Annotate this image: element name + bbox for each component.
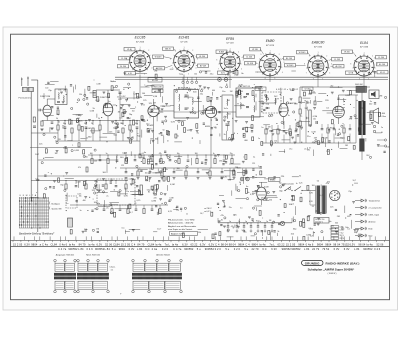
svg-text:6,3V: 6,3V (239, 85, 244, 87)
value label (247, 192, 249, 194)
svg-text:63 22: 63 22 (278, 242, 285, 246)
wire segment (356, 99, 358, 101)
wire segment (251, 235, 255, 237)
terminal strip rail bottom (11, 245, 390, 247)
value label (309, 228, 313, 230)
capacitor C246 (251, 219, 253, 220)
value label (295, 124, 298, 126)
svg-text:la 4a: la 4a (259, 242, 266, 246)
junction dot (309, 147, 310, 148)
capacitor value label (245, 221, 247, 223)
svg-text:C 4 7a: C 4 7a (58, 247, 67, 251)
wire segment (356, 231, 358, 233)
terminal circle (184, 207, 186, 209)
ground (125, 100, 128, 102)
value label (307, 136, 310, 138)
resistor R132 (236, 93, 238, 97)
value label (347, 216, 350, 218)
IF coil L11 (240, 103, 243, 110)
wire segment (46, 115, 54, 117)
value label (309, 201, 313, 203)
wire segment (303, 97, 311, 99)
svg-text:8n: 8n (342, 227, 344, 229)
wire segment (157, 209, 159, 215)
wire segment (335, 129, 337, 135)
capacitor C21 (169, 160, 172, 161)
socket pin label tag 12 (250, 48, 264, 55)
junction dot (262, 237, 263, 238)
junction dot (116, 105, 117, 106)
svg-text:63 22: 63 22 (190, 242, 197, 246)
wire stub (196, 155, 198, 159)
junction dot (115, 167, 116, 168)
wire segment (73, 114, 83, 116)
wire stub (99, 155, 101, 159)
resistor R261 (268, 230, 270, 234)
wire stub (283, 121, 285, 129)
svg-text:3 2 0: 3 2 0 (162, 247, 169, 251)
capacitor C64 (151, 209, 154, 210)
ground (319, 213, 322, 215)
resistor R109 (137, 93, 139, 98)
value label (36, 192, 38, 194)
resistor R32 (161, 171, 163, 176)
detector diode D1 (265, 107, 270, 110)
value label (137, 200, 142, 202)
wire component stub (122, 121, 124, 126)
wire stub (64, 128, 66, 141)
junction dot (233, 227, 234, 228)
wire segment (130, 151, 132, 156)
wire segment (147, 160, 153, 162)
resistor R80 (83, 150, 85, 154)
capacitor C200 (155, 190, 157, 191)
wire stub (227, 229, 229, 232)
ground (317, 218, 320, 220)
junction dot (43, 158, 44, 159)
svg-text:3: 3 (377, 63, 378, 65)
svg-text:220: 220 (180, 74, 183, 76)
resistor R1 (57, 125, 59, 130)
svg-text:3: 3 (243, 59, 244, 61)
capacitor C69 (250, 226, 252, 227)
value label (222, 91, 225, 93)
svg-text:6 3V: 6 3V (334, 247, 340, 251)
svg-text:AM-Zwischenkr. : 460 kHz: AM-Zwischenkr. : 460 kHz (168, 222, 193, 225)
value label (45, 88, 48, 90)
ground (132, 230, 135, 232)
ground (309, 125, 312, 127)
ground (257, 230, 260, 233)
value label (107, 103, 111, 105)
junction dot (129, 120, 130, 121)
junction dot (237, 222, 238, 223)
socket pin label tag 16 (329, 58, 342, 62)
svg-text:2: 2 (326, 55, 327, 57)
terminal circle (94, 149, 96, 151)
capacitor C148 (210, 109, 212, 110)
wire IF1 internal (174, 101, 199, 112)
svg-text:10,7: 10,7 (146, 124, 150, 126)
svg-text:la 4a: la 4a (155, 242, 162, 246)
wire segment (236, 198, 246, 200)
wire segment (165, 176, 167, 180)
capacitor C33 (173, 172, 176, 173)
resistor R1 (41, 121, 43, 126)
svg-text:125: 125 (252, 163, 255, 165)
svg-text:0 4a 6: 0 4a 6 (59, 242, 67, 246)
value label (307, 102, 310, 104)
ground (313, 108, 316, 110)
value label (129, 212, 133, 214)
wire segment (234, 225, 236, 228)
wire stub (137, 168, 139, 171)
value label (224, 134, 226, 136)
wire segment (340, 98, 346, 100)
wire IF chain 2 (199, 110, 206, 112)
wire component stub (115, 121, 117, 126)
junction dot (66, 94, 67, 95)
schematic border frame (11, 34, 390, 300)
terminal strip tick marks (13, 240, 384, 242)
junction dot (78, 120, 79, 121)
ground (282, 184, 285, 186)
resistor R153 (239, 90, 241, 94)
svg-text:5n: 5n (259, 221, 261, 223)
capacitor C242 (261, 231, 263, 232)
terminal circle (224, 116, 226, 118)
wire segment (109, 202, 118, 204)
resistor R12 (91, 159, 93, 164)
wire ladder ends (218, 218, 292, 223)
resistor R7 (99, 125, 101, 130)
socket pin label tag 24 (152, 89, 163, 93)
wire stub (277, 125, 279, 129)
value label (134, 203, 136, 205)
value label (84, 157, 88, 159)
value label (347, 229, 350, 231)
wire segment (312, 231, 314, 236)
value label (181, 211, 183, 213)
wire segment (351, 220, 353, 229)
value label (269, 199, 273, 201)
dial lamp LP2 (224, 78, 228, 82)
value label (117, 96, 120, 98)
socket pin label tag 21 (375, 71, 388, 75)
wire segment (184, 96, 192, 98)
value label (237, 133, 239, 135)
wire stub (125, 155, 127, 159)
wire stub (227, 223, 229, 226)
wire stub (214, 155, 216, 159)
terminal circle (64, 189, 66, 191)
value label (79, 94, 82, 96)
value label (289, 149, 292, 151)
value label (342, 227, 344, 229)
ground (130, 184, 133, 186)
value label (241, 105, 244, 107)
capacitor C99 (127, 117, 129, 118)
wire segment (317, 100, 322, 102)
svg-text:6,3V: 6,3V (121, 96, 126, 98)
value label (76, 114, 81, 116)
junction dot (205, 154, 206, 155)
value label (113, 128, 117, 130)
terminal circle (354, 115, 356, 117)
svg-text:UKW - Dipol: UKW - Dipol (369, 215, 380, 217)
wire segment (270, 232, 272, 240)
value label (129, 114, 133, 116)
terminal circle (265, 94, 267, 96)
value label (36, 180, 40, 182)
value label (310, 228, 314, 230)
value label (122, 153, 127, 155)
value label (242, 230, 246, 232)
capacitor C56 (115, 186, 118, 187)
junction dot (284, 212, 285, 213)
svg-text:5: 5 (234, 74, 235, 76)
value label (262, 217, 264, 219)
wire stub (349, 134, 351, 144)
value label (359, 124, 363, 126)
wire segment (313, 142, 324, 144)
resistor R40 (265, 129, 267, 134)
wire stub (75, 181, 77, 185)
capacitor C181 (328, 141, 330, 142)
value label (153, 103, 156, 105)
capacitor C83 (47, 82, 49, 83)
value label (80, 210, 82, 212)
wire segment (96, 114, 98, 118)
grid capacitor C2 (39, 109, 43, 112)
value label (239, 182, 241, 184)
svg-text:0,5M: 0,5M (74, 150, 79, 152)
capacitor value label (252, 221, 254, 223)
svg-text:0,5M: 0,5M (169, 198, 173, 200)
capacitor C79 (155, 164, 157, 165)
junction dot (313, 133, 314, 134)
tube V5 EABC80 (279, 96, 297, 121)
ground (359, 126, 362, 128)
svg-text:62-205: 62-205 (152, 80, 158, 82)
svg-text:0 4a 6: 0 4a 6 (306, 242, 314, 246)
value label (148, 132, 151, 134)
resistor R189 (318, 141, 320, 145)
svg-text:1M: 1M (96, 229, 99, 231)
svg-text:6,3V C 62 a 72 C4 62: 6,3V C 62 a 72 C4 62 (276, 89, 298, 91)
capacitor C37 (221, 172, 224, 173)
bass coil dashed box (66, 196, 77, 208)
value label (170, 69, 174, 71)
svg-text:CL 246: CL 246 (121, 58, 127, 60)
svg-text:2a: 2a (106, 196, 108, 198)
wire segment (237, 172, 247, 174)
svg-text:6,3V: 6,3V (182, 242, 188, 246)
output transformer secondary (359, 139, 364, 152)
wire stub (333, 124, 335, 128)
resistor R243 (307, 216, 309, 220)
junction dot (335, 228, 336, 229)
svg-text:8: 8 (216, 59, 217, 61)
resistor R94 (108, 93, 110, 97)
under-bus text row 2 (276, 89, 298, 91)
wire segment (202, 110, 213, 112)
svg-text:9804: 9804 (119, 247, 126, 251)
junction dot (265, 222, 266, 223)
value label (258, 166, 259, 168)
wire component stub (85, 121, 87, 126)
wire detector link (260, 98, 276, 103)
svg-text:25u: 25u (289, 149, 292, 151)
svg-text:8: 8 (170, 58, 171, 60)
wire component stub (136, 121, 138, 126)
svg-text:98 04: 98 04 (229, 242, 236, 246)
terminal circle (257, 199, 259, 201)
capacitor C108 (120, 108, 122, 109)
wire stub (264, 223, 266, 226)
junction dot (85, 120, 86, 121)
svg-text:100: 100 (90, 153, 93, 155)
resistor R102 (147, 128, 149, 132)
svg-text:CL 209: CL 209 (334, 59, 340, 61)
ground (151, 130, 154, 132)
wire segment (229, 163, 240, 165)
capacitor C76 (151, 155, 153, 156)
junction dot (125, 125, 126, 126)
value label (155, 173, 159, 175)
junction dot (160, 154, 161, 155)
svg-text:Bandpass: Bandpass (52, 204, 60, 206)
wire component stub (129, 121, 131, 126)
resistor R126 (246, 127, 248, 132)
terminal circle (293, 111, 295, 113)
wire stub (105, 181, 107, 185)
wire segment (223, 202, 225, 208)
junction dot (327, 95, 328, 96)
resistor R183 (314, 101, 316, 105)
svg-text:47k: 47k (231, 226, 234, 228)
resistor R208 (114, 212, 116, 217)
svg-text:10n: 10n (329, 221, 332, 223)
wire segment (256, 207, 258, 211)
wire segment (355, 117, 358, 119)
wire segment (243, 127, 253, 129)
svg-text:300: 300 (195, 153, 198, 155)
svg-text:( 2043 W ): ( 2043 W ) (328, 273, 337, 275)
wire segment (330, 86, 343, 88)
power transformer winding diagram B top terminals (132, 259, 183, 263)
svg-text:15 2 05: 15 2 05 (13, 242, 23, 246)
output transformer winding diagram winding spec boxes bottom (55, 281, 74, 289)
svg-text:15k: 15k (165, 169, 168, 171)
svg-text:300: 300 (177, 168, 180, 170)
svg-text:0,25: 0,25 (310, 235, 314, 237)
value label (150, 138, 153, 140)
IF coil L10 (240, 93, 243, 100)
value label (300, 115, 303, 117)
wire segment (150, 140, 152, 144)
svg-text:6 C: 6 C (145, 247, 149, 251)
IF transformer filter BF2 box (236, 88, 260, 117)
capacitor C130 (251, 131, 253, 132)
socket pin label tag 11 (216, 50, 227, 54)
resistor R106 (130, 139, 132, 143)
svg-text:6,3V: 6,3V (200, 242, 206, 246)
wire segment (67, 140, 72, 142)
svg-text:300: 300 (241, 105, 244, 107)
svg-text:CL84: CL84 (148, 242, 155, 246)
value label (274, 140, 277, 142)
capacitor C167 (265, 96, 267, 97)
junction dot (223, 154, 224, 155)
socket pin label tag 13 (281, 57, 294, 61)
wire stub (161, 168, 163, 171)
part value text (177, 153, 180, 155)
wire transformer leads (361, 92, 363, 160)
ground (103, 92, 106, 94)
svg-text:10,7: 10,7 (353, 180, 357, 182)
svg-text:x: x (258, 166, 259, 168)
socket pin label tag 8 (196, 64, 209, 68)
output transformer winding diagram top terminals (54, 259, 77, 263)
wire segment (173, 209, 178, 211)
junction dot (101, 117, 102, 118)
value label (229, 207, 232, 209)
resistor R163 (233, 170, 235, 174)
svg-text:7: 7 (306, 73, 307, 75)
junction dot (228, 222, 229, 223)
ground (189, 112, 192, 114)
svg-text:5 Ohm: 5 Ohm (381, 116, 387, 118)
wire segment (73, 87, 75, 93)
wire antenna downlead 2 (37, 80, 39, 232)
svg-text:300: 300 (329, 229, 332, 231)
title Schaltplan (308, 267, 355, 271)
resistor R134 (252, 116, 254, 121)
value label (132, 137, 135, 139)
value label (94, 181, 98, 183)
wire segment (111, 80, 116, 82)
resistor R138 (252, 91, 254, 96)
wire tube stem (153, 122, 155, 168)
part value text (213, 153, 215, 155)
power transformer winding diagram B coil former hatched bar (132, 273, 182, 279)
value label (308, 150, 310, 152)
svg-text:1n: 1n (258, 138, 260, 140)
terminal circle (56, 142, 58, 144)
value label (168, 211, 173, 213)
wire segment (113, 86, 116, 88)
svg-text:1n: 1n (186, 214, 188, 216)
part value text (135, 123, 138, 125)
junction dot (71, 120, 72, 121)
wire segment (202, 169, 210, 171)
wire stub (129, 130, 131, 141)
socket pin label tag 7 (196, 55, 208, 59)
value label (224, 108, 227, 110)
value label (94, 161, 98, 163)
svg-text:460: 460 (83, 200, 86, 202)
junction dot (255, 88, 256, 89)
value label (162, 106, 166, 108)
capacitor C133 (210, 98, 212, 99)
junction dot (125, 154, 126, 155)
svg-text:Abgleich nur mit Messsender: Abgleich nur mit Messsender (168, 225, 196, 228)
svg-text:5n: 5n (58, 122, 60, 124)
svg-text:Ausgangstr. 9005 021: Ausgangstr. 9005 021 (56, 253, 74, 256)
terminal circle (165, 120, 167, 122)
under-bus text row 1 (176, 88, 204, 90)
